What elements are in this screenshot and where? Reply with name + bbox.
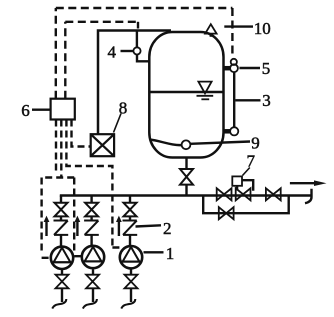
pilot 7 stem (236, 186, 238, 191)
pump P2 suction pipe end (92, 288, 94, 302)
branch B2 pipe valve-to-pump (90, 216, 92, 221)
branch B1 pipe valve-to-pump (60, 216, 62, 221)
pilot 7 sensing line (242, 180, 253, 191)
pump P2 (82, 246, 104, 268)
branch B3 flow arrow (116, 216, 122, 236)
svg-text:2: 2 (163, 219, 172, 238)
pump P3 suction valve (125, 275, 138, 289)
label 1 leader (144, 251, 164, 253)
main valve VA (217, 188, 232, 200)
branch B3 riser (129, 196, 131, 204)
tank outlet valve (gate) (180, 169, 193, 185)
pump P1 (51, 247, 73, 269)
compressor 8 (91, 134, 114, 156)
pump P3 suction stem (130, 270, 132, 276)
label 3 leader (235, 99, 260, 101)
branch B1 check valve (Z) (54, 221, 69, 235)
dashed control loop outer: right vertical to pressure device 5 (231, 8, 233, 57)
branch B2 flow arrow (75, 216, 81, 236)
branch B1 flow arrow (44, 216, 50, 236)
svg-text:1: 1 (166, 244, 175, 263)
outlet valve lower stem (185, 185, 187, 195)
dashed control loop outer: left vertical to box 6 (55, 8, 57, 99)
tank outlet stem (185, 158, 187, 170)
branch B2 riser (90, 196, 92, 204)
wire W3 box6 to pump P3 (dashed) (66, 120, 120, 248)
drain sensor 9 curve (150, 140, 182, 146)
level gauge upper flange (224, 66, 230, 71)
outlet flow arrow (290, 180, 327, 186)
tank T (vessel 3) (149, 32, 223, 158)
branch B3 gate valve (124, 203, 137, 217)
wire W4 box6 to compressor 8 (dashed) (72, 120, 91, 147)
main valve VC (266, 188, 281, 200)
label 7 leader (243, 168, 250, 176)
pressure device 5 lower circle (230, 64, 238, 72)
wire W2 box6 to pump P2 (dashed) (61, 120, 82, 257)
solenoid valve 4 (133, 31, 149, 61)
label 5 leader (239, 67, 260, 69)
label 4 leader (121, 50, 134, 52)
svg-text:8: 8 (119, 98, 128, 117)
pump P1 suction pipe end (61, 288, 63, 302)
pump P1 suction stem (61, 270, 63, 275)
pump P2 suction stem (92, 270, 94, 276)
drain sensor 9 circle (182, 140, 191, 149)
svg-text:4: 4 (108, 43, 117, 62)
level gauge lower circle (230, 127, 238, 135)
svg-text:5: 5 (262, 59, 271, 78)
level gauge lower flange (224, 129, 230, 134)
branch B2 gate valve (85, 203, 98, 217)
branch B3 check valve (Z) (123, 221, 138, 235)
pressure device 5 upper circle (231, 59, 237, 65)
pump P3 (120, 246, 142, 268)
outlet pipe break symbol (305, 189, 312, 204)
svg-text:10: 10 (254, 19, 271, 38)
main discharge pipe (60, 194, 312, 197)
main valve VB left triangle (236, 188, 243, 200)
svg-text:9: 9 (251, 134, 259, 153)
svg-text:7: 7 (247, 151, 256, 170)
air pipe from compressor 8 to tank (98, 31, 171, 135)
branch B1 gate valve (55, 203, 68, 217)
pump P1 suction valve (56, 275, 69, 289)
label 9 leader (191, 142, 251, 144)
label 6 leader (32, 108, 50, 110)
branch B1 riser (60, 196, 62, 204)
dashed control line inner: end tick down (137, 22, 139, 29)
bypass valve (219, 207, 234, 219)
pump P1 pipe break symbol (52, 299, 66, 309)
pump P2 suction valve (86, 275, 99, 289)
safety valve 10 (205, 24, 216, 37)
bypass pipe (203, 196, 289, 214)
dashed control loop outer: top horizontal (56, 7, 233, 9)
branch B3 pipe valve-to-pump (129, 216, 131, 221)
label 10 leader (224, 25, 253, 27)
level gauge tube (233, 72, 235, 127)
svg-text:6: 6 (21, 101, 30, 120)
dashed control line inner: top horizontal to solenoid 4 (65, 21, 138, 23)
main valve VB right triangle (243, 188, 250, 200)
water level symbol (197, 82, 214, 100)
pump P2 pipe break symbol (83, 299, 97, 309)
water line (150, 91, 223, 93)
label 2 leader (136, 225, 162, 226)
branch B2 check valve (Z) (84, 221, 99, 235)
pump P3 suction pipe end (130, 288, 132, 302)
svg-text:3: 3 (262, 91, 271, 110)
control box 6 (51, 99, 75, 120)
pilot 7 actuator square (232, 176, 242, 185)
dashed control line inner: left vertical to box 6 (64, 22, 66, 99)
pump P3 pipe break symbol (121, 299, 135, 309)
wire W1 box6 to pump P1 (dashed) (42, 120, 75, 258)
label 8 leader (114, 114, 122, 133)
